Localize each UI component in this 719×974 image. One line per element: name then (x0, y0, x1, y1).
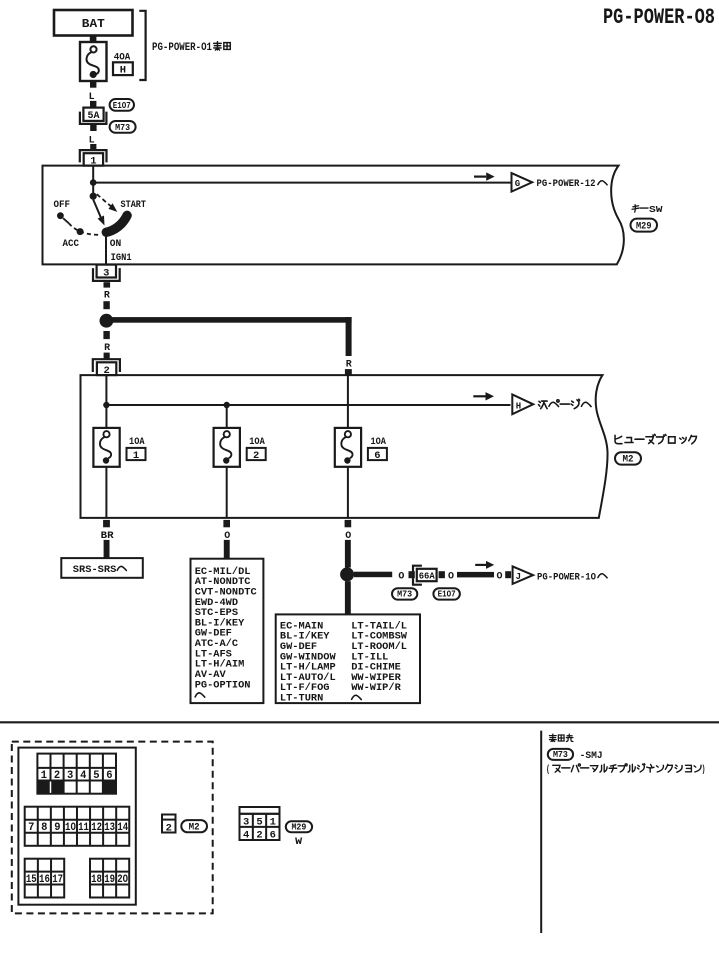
dashed arc OFF-ACC-ON (69, 223, 99, 235)
svg-text:(: ( (546, 764, 550, 776)
svg-text:11: 11 (78, 822, 89, 834)
svg-text:IGN1: IGN1 (111, 252, 132, 264)
svg-text:PG-OPTION: PG-OPTION (195, 679, 251, 691)
connector M73 (110, 121, 136, 133)
dashed box connector layouts (12, 742, 213, 914)
wire battery feed (92, 166, 94, 196)
junction node thick (340, 567, 354, 581)
switch pivot junction (90, 193, 97, 200)
connector M29 (286, 821, 312, 832)
wire stub (104, 353, 110, 359)
fuse 10A 1 (93, 428, 145, 467)
label W (295, 836, 303, 848)
fuse 5A connector (80, 108, 107, 124)
svg-text:H: H (516, 401, 521, 411)
svg-text:18: 18 (91, 874, 102, 886)
svg-text:1: 1 (41, 770, 48, 782)
svg-text:1O: 1O (65, 822, 76, 834)
svg-text:1OA: 1OA (129, 437, 145, 448)
wire connector2 to fuse1 (105, 375, 107, 428)
fuse block box M2 (81, 375, 608, 518)
svg-text:M29: M29 (291, 821, 306, 832)
list box fuse1 loads (191, 559, 264, 703)
connector grid pins 18-20 (90, 859, 129, 898)
divider line (0, 721, 719, 723)
switch ACC contact (77, 228, 84, 235)
connector grid pins 7-14 (25, 807, 130, 846)
wire stub (409, 571, 415, 578)
wire stub (90, 125, 96, 131)
bus wire to H (106, 404, 510, 406)
wire stub (103, 331, 109, 339)
title PG-POWER-08 (603, 5, 715, 30)
wire stub (90, 144, 96, 150)
wire fuse6 down (347, 467, 349, 518)
wire to G (93, 182, 510, 184)
svg-text:R: R (346, 358, 353, 370)
svg-text:H: H (120, 64, 126, 76)
junction (90, 179, 97, 186)
wire label R (346, 358, 353, 370)
svg-text:M73: M73 (115, 122, 130, 133)
wire label 0 (448, 571, 454, 583)
arrow right (473, 392, 494, 400)
svg-text:2O: 2O (117, 874, 128, 886)
svg-text:3: 3 (243, 817, 249, 829)
thick wire branch right (106, 317, 351, 356)
svg-text:7: 7 (28, 822, 34, 834)
battery BAT (54, 10, 133, 36)
triangle J (513, 566, 534, 584)
svg-text:-SMJ: -SMJ (580, 750, 603, 762)
switch OFF contact (57, 212, 69, 223)
svg-text:8: 8 (41, 822, 48, 834)
svg-text:1OA: 1OA (370, 437, 386, 448)
reference section rule (540, 731, 542, 933)
fuse 10A 2 (214, 428, 266, 467)
svg-text:13: 13 (104, 822, 115, 834)
svg-text:M73: M73 (397, 589, 412, 600)
connector M73 (392, 588, 417, 600)
svg-text:O: O (398, 571, 404, 583)
label PG-POWER-12へ (537, 178, 608, 190)
wire label L (89, 91, 95, 103)
wire label BR (101, 530, 115, 542)
thick wire to list box (345, 581, 351, 614)
label box SRS-SRSへ (61, 558, 143, 578)
wire stub (505, 571, 511, 578)
svg-text:M29: M29 (636, 222, 652, 233)
wire label L (89, 135, 95, 147)
svg-text:14: 14 (117, 822, 128, 834)
svg-text:2: 2 (166, 822, 172, 834)
svg-text:17: 17 (52, 874, 63, 886)
svg-text:J: J (516, 572, 521, 582)
wire stub (345, 369, 352, 375)
svg-text:M2: M2 (189, 822, 200, 833)
svg-text:16: 16 (39, 874, 50, 886)
label START (121, 199, 147, 211)
svg-text:START: START (121, 199, 147, 211)
wire label R (104, 342, 111, 354)
svg-text:3: 3 (67, 770, 74, 782)
wire fuse1 down (105, 467, 107, 518)
wire label 0 (497, 571, 503, 583)
arrow right (475, 561, 494, 569)
svg-text:6: 6 (270, 830, 276, 842)
wire label 0 (224, 530, 230, 542)
key switch connector grid M29 (240, 807, 280, 842)
svg-text:ACC: ACC (63, 238, 80, 250)
svg-text:3: 3 (103, 267, 109, 279)
connector M2 (615, 452, 641, 466)
svg-text:PG-POWER-O1: PG-POWER-O1 (152, 42, 212, 54)
wire label R (104, 290, 111, 302)
svg-text:O: O (497, 571, 503, 583)
wire fuse2 drop (226, 405, 228, 428)
connector M29 (631, 219, 658, 233)
svg-text:5: 5 (256, 817, 262, 829)
wire label 0 (398, 571, 404, 583)
label OFF (54, 199, 71, 211)
connector M73 (548, 749, 573, 760)
svg-text:PG-POWER-O8: PG-POWER-O8 (603, 5, 715, 30)
label PG-POWER-10へ (537, 571, 607, 583)
label 参照先 (549, 734, 573, 741)
svg-text:WW-WIP/R: WW-WIP/R (351, 682, 401, 694)
svg-text:): ) (702, 764, 706, 776)
wire R to fuse6 (347, 375, 349, 428)
connector 2 cell (162, 815, 176, 835)
svg-text:19: 19 (104, 874, 115, 886)
wire stub (90, 82, 96, 88)
fuse block face box (18, 748, 135, 905)
label IGN1 (111, 252, 132, 264)
svg-text:SW: SW (649, 204, 663, 215)
svg-text:2: 2 (54, 770, 60, 782)
connector 1 key switch (80, 150, 107, 167)
svg-text:ON: ON (110, 238, 122, 250)
switch arm arrow (93, 200, 104, 226)
svg-text:OFF: OFF (54, 199, 71, 211)
svg-text:12: 12 (91, 822, 102, 834)
label スーパーマルチプルジャンクション (546, 764, 706, 776)
connector grid pins 15-17 (25, 859, 65, 898)
triangle G (512, 173, 533, 192)
connector E107 (110, 99, 134, 111)
svg-text:1: 1 (270, 817, 276, 829)
label ヒューズブロック (615, 434, 696, 444)
svg-text:2: 2 (256, 830, 262, 842)
svg-text:G: G (515, 179, 520, 189)
thick wire to 66A (354, 572, 392, 578)
wire fuse2 down (226, 467, 228, 518)
wire label 0 (345, 530, 351, 542)
connector grid pins 1-6 (37, 754, 116, 794)
wire stub (223, 520, 230, 527)
label ACC (63, 238, 80, 250)
wire stub (103, 301, 109, 309)
junction (224, 402, 230, 408)
bracket PG-POWER-01 reference (139, 11, 145, 80)
svg-text:E1O7: E1O7 (438, 589, 456, 600)
wire stub (345, 520, 352, 527)
key switch box M29 (43, 166, 624, 265)
svg-text:5: 5 (93, 770, 100, 782)
svg-text:6: 6 (374, 450, 380, 462)
label 次ページへ (539, 399, 592, 408)
svg-text:9: 9 (54, 822, 60, 834)
label ON (110, 238, 122, 250)
junction node thick (100, 314, 114, 328)
fusible link 40A H (80, 42, 133, 81)
thick wire fuse6 load (345, 540, 351, 568)
svg-text:6: 6 (106, 770, 112, 782)
svg-text:R: R (104, 342, 111, 354)
svg-text:E1O7: E1O7 (113, 100, 131, 111)
svg-text:4: 4 (243, 830, 249, 842)
dashed arrow to START (97, 194, 118, 212)
wire stub (104, 282, 111, 287)
thick wire BR (104, 540, 110, 558)
svg-text:15: 15 (26, 874, 37, 886)
junction (103, 402, 109, 408)
svg-text:O: O (448, 571, 454, 583)
svg-text:M2: M2 (623, 455, 634, 466)
connector M2 (181, 820, 207, 833)
connector 66A SMJ (413, 566, 437, 585)
svg-text:4: 4 (80, 770, 87, 782)
svg-text:W: W (295, 836, 303, 848)
label -SMJ (580, 750, 603, 762)
thick wire (457, 572, 494, 578)
wire ON to IGN1 (105, 235, 107, 265)
svg-text:SRS-SRS: SRS-SRS (73, 564, 117, 576)
wire stub (103, 520, 110, 527)
svg-text:R: R (104, 290, 111, 302)
svg-text:5A: 5A (88, 111, 100, 122)
triangle H (512, 395, 533, 415)
svg-text:PG-POWER-1O: PG-POWER-1O (537, 571, 596, 583)
wire stub (439, 571, 445, 578)
fuse 10A 6 (335, 428, 387, 467)
svg-text:66A: 66A (419, 570, 435, 581)
switch ON contact crescent (106, 215, 127, 232)
svg-text:M73: M73 (553, 749, 568, 760)
list box fuse6 loads (276, 614, 420, 704)
wire stub (90, 101, 96, 107)
svg-text:2: 2 (253, 450, 259, 462)
connector 3 key switch (93, 265, 120, 281)
connector 2 fuse block (93, 359, 120, 377)
svg-text:LT-TURN: LT-TURN (280, 693, 323, 705)
thick wire fuse2 load (224, 540, 230, 559)
svg-text:PG-POWER-12: PG-POWER-12 (537, 178, 596, 190)
wire stub BAT to fusible link (90, 36, 97, 42)
label キーSW (632, 204, 663, 215)
label PG-POWER-01参照 (152, 42, 230, 54)
svg-text:1OA: 1OA (249, 437, 265, 448)
connector E107 (433, 588, 460, 600)
svg-text:1: 1 (133, 450, 139, 462)
arrow right (474, 172, 495, 180)
svg-text:BAT: BAT (82, 17, 105, 31)
